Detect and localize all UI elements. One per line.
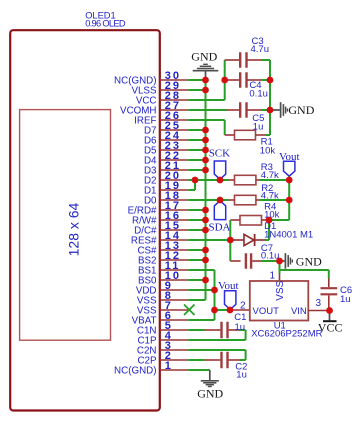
svg-text:VOUT: VOUT: [253, 306, 280, 317]
svg-text:XC6206P252MR: XC6206P252MR: [251, 329, 322, 340]
svg-text:128 x 64: 128 x 64: [66, 202, 82, 256]
svg-text:VCC: VCC: [318, 321, 343, 335]
svg-text:NC(GND): NC(GND): [114, 365, 156, 376]
svg-text:4.7u: 4.7u: [251, 44, 270, 55]
svg-text:GND: GND: [296, 255, 322, 269]
svg-text:2: 2: [240, 301, 246, 312]
svg-text:GND: GND: [197, 386, 223, 400]
svg-text:GND: GND: [288, 103, 314, 117]
svg-text:SCK: SCK: [209, 148, 230, 160]
svg-text:4.7k: 4.7k: [261, 190, 279, 201]
svg-text:1: 1: [269, 271, 275, 282]
svg-text:0.1u: 0.1u: [249, 88, 268, 99]
svg-text:1u: 1u: [236, 369, 247, 380]
svg-text:1: 1: [165, 360, 173, 372]
svg-text:0.96 OLED: 0.96 OLED: [85, 18, 126, 28]
svg-text:VSS: VSS: [275, 280, 286, 300]
svg-text:1N4001 M1: 1N4001 M1: [264, 230, 313, 241]
svg-text:SDA: SDA: [209, 222, 231, 234]
svg-text:1u: 1u: [340, 294, 351, 305]
svg-text:3: 3: [316, 298, 322, 309]
svg-text:VIN: VIN: [291, 306, 307, 317]
svg-text:GND: GND: [191, 50, 217, 64]
svg-text:1u: 1u: [235, 322, 246, 333]
svg-text:10k: 10k: [260, 145, 276, 156]
svg-text:4.7k: 4.7k: [261, 170, 279, 181]
